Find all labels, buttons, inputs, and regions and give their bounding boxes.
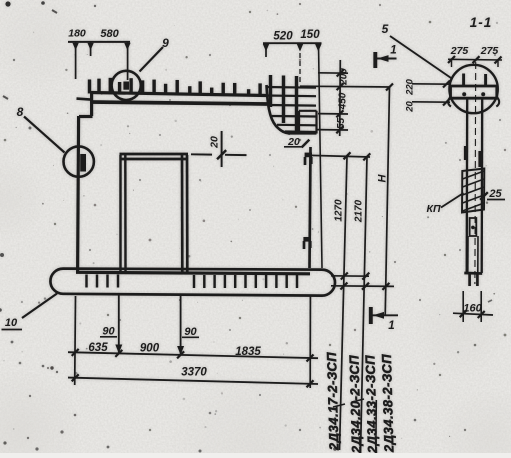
svg-text:1835: 1835 [235,346,261,358]
svg-text:1: 1 [388,320,394,332]
svg-text:450: 450 [338,92,349,110]
svg-text:2Д34.33-2-ЗСП: 2Д34.33-2-ЗСП [362,354,380,453]
svg-text:150: 150 [300,29,320,41]
svg-text:20: 20 [405,101,416,113]
svg-text:5: 5 [382,22,389,36]
svg-text:1-1: 1-1 [470,15,493,30]
svg-text:635: 635 [88,342,108,354]
svg-text:КП: КП [426,203,440,215]
svg-text:2Д34.20-2-ЗСП: 2Д34.20-2-ЗСП [346,354,364,453]
svg-text:2Д34.17-2-ЗСП: 2Д34.17-2-ЗСП [324,351,342,451]
svg-text:8: 8 [17,105,24,119]
svg-text:3370: 3370 [181,367,207,379]
svg-text:275: 275 [450,45,469,57]
svg-text:1270: 1270 [334,199,345,222]
svg-text:20: 20 [209,136,221,149]
svg-text:520: 520 [273,31,293,43]
svg-text:2170: 2170 [354,199,365,223]
svg-text:90: 90 [184,326,197,338]
svg-text:25: 25 [488,188,502,200]
svg-text:200: 200 [339,68,350,86]
svg-text:180: 180 [68,28,86,40]
svg-text:9: 9 [162,36,169,50]
svg-text:55: 55 [336,118,347,130]
svg-text:2Д34.38-2-ЗСП: 2Д34.38-2-ЗСП [379,353,397,453]
svg-text:900: 900 [140,343,160,355]
svg-text:90: 90 [102,326,115,338]
svg-text:580: 580 [100,28,119,40]
svg-text:10: 10 [5,317,18,329]
svg-text:220: 220 [405,78,416,96]
svg-text:1: 1 [390,45,396,57]
svg-text:160: 160 [463,303,482,315]
svg-text:H: H [377,173,389,182]
